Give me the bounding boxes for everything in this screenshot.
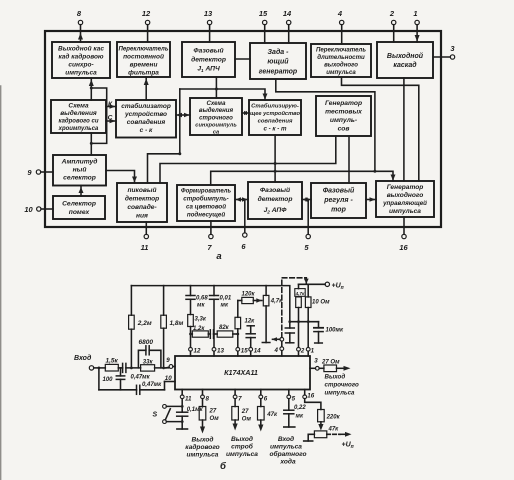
svg-text:кадрового си: кадрового си xyxy=(58,119,98,125)
svg-text:Вход: Вход xyxy=(74,354,92,362)
IC pin 2 node xyxy=(297,347,305,356)
svg-text:хода: хода xyxy=(279,458,296,466)
svg-text:синхроимпуль: синхроимпуль xyxy=(195,123,237,129)
svg-text:S: S xyxy=(153,412,158,419)
capacitor C1 0.47uF series xyxy=(123,363,151,380)
svg-text:1,8м: 1,8м xyxy=(170,320,184,327)
svg-text:Генератор: Генератор xyxy=(325,100,362,107)
resistor R12 33k xyxy=(141,360,169,372)
svg-text:тестовых: тестовых xyxy=(325,109,362,116)
block U1 Выходной каскад кадрового синхроимпульса xyxy=(52,42,110,78)
svg-text:100: 100 xyxy=(103,377,114,383)
wire U9-U10 link with arrows xyxy=(242,111,249,115)
ground rail bottom xyxy=(99,389,137,391)
svg-text:12к: 12к xyxy=(245,319,256,325)
svg-text:импульса: импульса xyxy=(325,390,356,397)
capacitor C3 0.68uF and resistor R3 3.3k chain to pin 12 xyxy=(186,286,195,348)
svg-text:выходного: выходного xyxy=(324,62,358,69)
wire U17-U18 link with right arrow xyxy=(366,197,376,202)
svg-text:детектор: детектор xyxy=(258,195,293,203)
svg-text:1: 1 xyxy=(311,347,315,354)
block U6 Выходной каскад xyxy=(377,42,433,78)
svg-text:строчного: строчного xyxy=(199,114,233,121)
svg-text:Генератор: Генератор xyxy=(387,184,424,191)
svg-text:13: 13 xyxy=(204,9,213,18)
svg-text:совпадения: совпадения xyxy=(127,118,166,126)
wire U7 bottom to U12 top xyxy=(90,133,92,155)
wire input down leg xyxy=(98,368,100,390)
wire junction net to U14 top xyxy=(148,154,180,183)
resistor R4 1.2k chain xyxy=(191,326,211,337)
wire U1-U7 with up arrow xyxy=(89,78,94,100)
block U15 Формирователь строб-импульса цветовой поднесущей xyxy=(177,185,235,221)
input terminal xyxy=(74,354,94,370)
svg-text:3: 3 xyxy=(314,357,318,364)
block U11 Генератор тестовых импульсов xyxy=(316,96,371,136)
svg-text:с - к - т: с - к - т xyxy=(263,126,287,133)
wire U10 bottom to U16 top xyxy=(274,135,276,182)
block U9 Схема выделения строчного синхроимпульса xyxy=(190,98,242,135)
potentiometer R8 4.7k xyxy=(262,286,283,343)
resistor R5 82k chain xyxy=(214,325,238,337)
svg-text:33к: 33к xyxy=(143,360,154,366)
resistor R6 12k on pin15 line xyxy=(235,301,255,348)
wire pin8 to U1 with up arrow xyxy=(78,31,83,42)
svg-text:11: 11 xyxy=(185,395,192,402)
wire pin4 to U5 xyxy=(341,31,343,44)
svg-text:импульса: импульса xyxy=(226,451,258,458)
svg-text:Формирователь: Формирователь xyxy=(181,189,232,195)
svg-text:выделения: выделения xyxy=(199,107,234,114)
svg-text:генератор: генератор xyxy=(259,69,298,76)
svg-text:3: 3 xyxy=(450,44,455,53)
IC pin 10 node xyxy=(165,375,176,382)
svg-text:3,3к: 3,3к xyxy=(195,317,207,323)
IC pin 4 node xyxy=(274,347,284,356)
svg-text:J1 АПЧ: J1 АПЧ xyxy=(197,66,220,73)
wire vertical x180 xyxy=(179,89,181,154)
wire pin13 to U3 xyxy=(209,31,211,42)
svg-text:0,47мк: 0,47мк xyxy=(142,382,162,388)
svg-text:J2 АПФ: J2 АПФ xyxy=(264,207,288,214)
block U14 Пиковый детектор совпадения xyxy=(117,183,167,222)
junction at 275,171 xyxy=(274,170,277,173)
svg-text:Вход: Вход xyxy=(278,435,294,443)
wire U13 to U12 with up arrow xyxy=(79,186,84,197)
svg-text:5: 5 xyxy=(304,243,309,252)
junction at 180,154 xyxy=(178,152,181,155)
wire U16-U17 link with arrows xyxy=(302,197,311,201)
svg-text:помех: помех xyxy=(69,209,90,216)
svg-text:+Uп: +Uп xyxy=(332,283,344,292)
IC pin 13 node xyxy=(212,347,224,356)
capacitor C2 100 to rail xyxy=(103,368,125,390)
IC pin 11 node xyxy=(180,390,192,403)
pin 1 terminal xyxy=(413,9,419,31)
svg-text:каскад: каскад xyxy=(393,61,417,69)
svg-text:82к: 82к xyxy=(219,325,230,331)
svg-text:Схема: Схема xyxy=(68,103,89,110)
wire pin14 to U4 xyxy=(288,31,290,43)
svg-text:14: 14 xyxy=(254,347,261,354)
label output line pulse xyxy=(325,374,359,397)
svg-text:постоянной: постоянной xyxy=(123,53,164,61)
svg-text:са цветовой: са цветовой xyxy=(186,204,226,211)
svg-text:импуль-: импуль- xyxy=(330,117,358,124)
svg-text:стробимпуль-: стробимпуль- xyxy=(183,196,229,203)
svg-text:47к: 47к xyxy=(266,412,278,418)
svg-text:импульса: импульса xyxy=(187,452,219,459)
wire pin2 to U6 xyxy=(393,31,395,42)
resistor R11 1.5k xyxy=(105,357,122,371)
svg-text:тор: тор xyxy=(331,207,346,214)
svg-text:Фазовый: Фазовый xyxy=(323,187,355,195)
wire pin15 to U4 xyxy=(264,31,266,43)
block U16 Фазовый детектор 2 АПФ xyxy=(248,182,302,219)
svg-text:Ом: Ом xyxy=(242,417,252,423)
pin 11 terminal xyxy=(141,222,149,252)
svg-text:времени: времени xyxy=(130,62,158,69)
IC pin 9 node xyxy=(166,357,175,368)
svg-text:ный: ный xyxy=(73,166,87,174)
svg-text:1,2к: 1,2к xyxy=(193,326,205,332)
svg-text:Фазовый: Фазовый xyxy=(260,186,290,194)
svg-text:Амплитуд: Амплитуд xyxy=(61,158,98,166)
svg-text:обратного: обратного xyxy=(269,450,306,458)
svg-text:Выход: Выход xyxy=(231,435,253,443)
svg-text:220к: 220к xyxy=(326,415,341,421)
resistor R15 47k pin 6 input xyxy=(258,399,278,432)
+Un segment and terminal xyxy=(299,282,344,291)
scan page edge left xyxy=(0,86,2,480)
svg-text:детектор: детектор xyxy=(191,56,226,64)
IC pin 5 node xyxy=(287,390,296,403)
svg-text:5: 5 xyxy=(292,395,296,402)
potentiometer R17 47k xyxy=(304,427,339,442)
svg-text:кад кадровою: кад кадровою xyxy=(58,53,103,61)
wire C link U7-U8 xyxy=(106,119,116,124)
svg-text:Зада -: Зада - xyxy=(268,48,290,56)
junction pin1 line xyxy=(307,320,310,323)
svg-text:совпаде-: совпаде- xyxy=(127,203,156,211)
pin 9 terminal xyxy=(27,168,53,177)
svg-text:Селектор: Селектор xyxy=(62,201,96,208)
svg-text:0,47мк: 0,47мк xyxy=(131,375,151,381)
svg-text:управляющей: управляющей xyxy=(382,200,427,207)
wire pin9 link xyxy=(166,366,169,369)
wire U5 bottom to U18 top xyxy=(342,77,419,181)
switch contact at pin 4 xyxy=(272,337,284,346)
capacitor C4 0.01uF to pin 13 xyxy=(210,286,219,348)
label input flyback pulse xyxy=(269,435,306,466)
junction S top xyxy=(181,405,184,408)
svg-text:щее устройство: щее устройство xyxy=(250,110,300,117)
svg-text:10 Ом: 10 Ом xyxy=(312,300,330,306)
svg-text:2: 2 xyxy=(300,347,305,354)
capacitor C12 0.22uF pin 5 xyxy=(284,399,307,427)
svg-text:8: 8 xyxy=(77,9,82,18)
dashed wiper to +Un xyxy=(327,432,354,450)
wire U12 out to U14 top with down arrow xyxy=(106,171,137,184)
svg-text:мк: мк xyxy=(197,303,205,309)
pin 5 terminal xyxy=(304,200,310,253)
svg-text:кадрового: кадрового xyxy=(185,443,219,451)
block U12 Амплитудный селектор xyxy=(53,155,106,186)
svg-text:4,7к: 4,7к xyxy=(295,291,305,296)
capacitor C6 at pin 14 xyxy=(246,326,255,348)
pin 13 terminal xyxy=(204,9,213,31)
svg-text:0,68: 0,68 xyxy=(196,296,208,302)
arrow onto +Un rail xyxy=(304,278,309,284)
junction S bottom xyxy=(181,420,184,423)
svg-text:выходного: выходного xyxy=(387,191,424,199)
svg-text:Фазовый: Фазовый xyxy=(193,47,223,55)
svg-text:Выходной кас: Выходной кас xyxy=(58,45,104,53)
svg-text:импульса: импульса xyxy=(326,69,356,76)
wire horizontal y89 to U10 top with down arrow xyxy=(180,89,268,100)
block U18 Генератор выходного управляющего импульса xyxy=(376,181,434,217)
IC pin 6 node xyxy=(259,390,268,403)
outer box of block diagram xyxy=(45,31,441,227)
capacitor C7 on rail turn xyxy=(285,322,294,343)
pin 2 terminal xyxy=(389,9,396,31)
IC pin 15 node xyxy=(236,347,248,356)
dashed link pin4 to +Un xyxy=(282,278,307,338)
IC pin 1 node xyxy=(306,347,314,356)
framed value 4.7k xyxy=(295,284,306,296)
svg-text:120к: 120к xyxy=(242,292,256,298)
junction at 216,89 xyxy=(215,88,218,91)
wire U3 down to U9 top xyxy=(215,77,217,98)
junction at 91,88 xyxy=(90,87,93,90)
block U8 Стабилизатор устройство совпадения С-К xyxy=(116,100,176,138)
IC pin 8 node xyxy=(201,390,210,403)
pin 3 terminal xyxy=(433,44,455,59)
wire K link U7-U8 xyxy=(106,104,116,109)
capacitor C10 0.47uF series in rail xyxy=(137,382,165,394)
label output strobe pulse xyxy=(226,435,258,458)
svg-text:мк: мк xyxy=(296,414,304,420)
junction chain-pin15 xyxy=(236,333,239,336)
svg-text:хроимпульса: хроимпульса xyxy=(58,126,99,132)
svg-text:импульса: импульса xyxy=(65,70,97,77)
wire U11 bottom left to U14 top xyxy=(160,136,336,183)
pin 8 terminal xyxy=(77,9,83,31)
svg-text:0,22: 0,22 xyxy=(294,405,306,411)
switch S xyxy=(153,405,183,424)
wire pin12 to U2 xyxy=(147,31,149,42)
junction at 375,171 xyxy=(373,170,376,173)
junction at 180,115 xyxy=(178,114,181,117)
svg-text:+Uп: +Uп xyxy=(342,442,354,451)
svg-text:47к: 47к xyxy=(328,427,340,433)
wire pin1 to U6 with down arrow xyxy=(415,31,420,42)
svg-text:2,2м: 2,2м xyxy=(137,320,152,327)
svg-text:27: 27 xyxy=(209,409,217,415)
svg-text:16: 16 xyxy=(307,392,314,399)
svg-text:14: 14 xyxy=(283,9,292,18)
junction node 1.8M xyxy=(162,367,165,370)
svg-text:стабилизатор: стабилизатор xyxy=(121,102,171,110)
wire U3-U4 link xyxy=(235,58,250,60)
svg-text:Выход: Выход xyxy=(192,436,214,444)
svg-text:мк: мк xyxy=(221,303,229,309)
svg-text:ния: ния xyxy=(136,213,148,220)
svg-text:9: 9 xyxy=(27,168,32,177)
svg-text:пиковый: пиковый xyxy=(127,186,156,194)
svg-text:12: 12 xyxy=(142,9,151,18)
svg-text:импульса: импульса xyxy=(270,444,302,451)
svg-text:4: 4 xyxy=(337,9,343,18)
block U4 Задающий генератор xyxy=(250,43,306,79)
IC pin 12 node xyxy=(189,347,201,356)
pin 10 terminal xyxy=(24,205,53,214)
wire pin 11 down xyxy=(181,399,183,413)
IC pin 7 node xyxy=(233,390,242,403)
svg-text:0,01: 0,01 xyxy=(220,296,232,302)
wire bypass around U7 right xyxy=(91,88,106,143)
svg-text:Ом: Ом xyxy=(210,416,220,422)
svg-text:поднесущей: поднесущей xyxy=(187,212,226,219)
wire pin16 to 220k xyxy=(305,399,321,410)
svg-text:Переключатель: Переключатель xyxy=(316,47,366,54)
svg-text:фильтра: фильтра xyxy=(128,70,159,77)
junction chain-pin13 xyxy=(189,333,192,336)
pin 16 terminal xyxy=(399,217,408,252)
junction pin2 line xyxy=(297,320,300,323)
IC DA1 K174XA11 xyxy=(175,356,310,390)
junction node 2.2M xyxy=(130,367,133,370)
svg-text:1,5к: 1,5к xyxy=(106,357,119,364)
junction rail turn xyxy=(288,320,291,323)
wire U15-U16 link with arrows xyxy=(235,197,248,201)
supply rail top xyxy=(131,286,289,322)
wire U8 to U2 with up arrow xyxy=(144,77,149,100)
svg-text:с - к: с - к xyxy=(140,127,153,134)
rail to caps horizontal xyxy=(290,321,319,323)
wire U6 bottom to U18 top xyxy=(403,78,405,181)
svg-text:7: 7 xyxy=(207,243,212,252)
block U3 Фазовый детектор 1 АПЧ xyxy=(182,42,235,77)
capacitor C9 6800 parallel loop xyxy=(138,339,161,368)
svg-text:100мк: 100мк xyxy=(326,328,344,334)
svg-text:совпадения: совпадения xyxy=(258,119,293,125)
svg-text:детектор: детектор xyxy=(125,195,159,203)
block U2 Переключатель постоянной времени фильтра xyxy=(117,42,170,77)
svg-text:са: са xyxy=(213,129,219,135)
svg-text:8: 8 xyxy=(206,395,210,402)
resistor R16 220k xyxy=(318,410,341,431)
svg-text:строб: строб xyxy=(231,443,254,451)
svg-text:13: 13 xyxy=(217,347,224,354)
svg-text:строчного: строчного xyxy=(325,382,359,389)
svg-text:10: 10 xyxy=(165,375,172,382)
svg-text:Стабилизирую-: Стабилизирую- xyxy=(251,103,299,110)
block U5 Переключатель длительности выходного импульса xyxy=(311,44,371,77)
svg-text:10: 10 xyxy=(24,205,33,214)
svg-text:4: 4 xyxy=(274,347,279,354)
svg-text:выделения: выделения xyxy=(60,109,97,117)
resistor R18 27 Ohm pin 3 output xyxy=(319,359,350,371)
wire rail to pin 10 xyxy=(164,382,166,390)
wire U11 bottom to U17 top xyxy=(348,136,350,183)
capacitor C8 100uF electrolytic xyxy=(314,322,344,343)
label output frame pulse xyxy=(185,436,219,459)
resistor R14 27 Ohm pin 7 output xyxy=(232,399,252,431)
svg-text:11: 11 xyxy=(141,243,149,252)
resistor R13 27 Ohm pin 8 output xyxy=(199,399,219,434)
svg-text:а: а xyxy=(216,251,221,262)
resistor R7 120k with arrow to pot xyxy=(238,292,262,304)
svg-text:16: 16 xyxy=(399,243,408,252)
pin 4 terminal xyxy=(337,9,344,31)
pin 12 terminal xyxy=(142,9,151,31)
pin 15 terminal xyxy=(259,9,268,31)
block U10 Стабилизирующее устройство совпадения С-К-Т xyxy=(249,100,301,135)
svg-text:ющий: ющий xyxy=(267,58,289,66)
capacitor C5 series in chain xyxy=(210,330,213,339)
svg-text:устройство: устройство xyxy=(124,110,167,118)
resistor R1 2.2M xyxy=(129,286,152,368)
svg-text:9: 9 xyxy=(166,357,170,364)
resistor R10 10 Ohm to pin 1 xyxy=(305,284,330,347)
junction at 91,143 xyxy=(90,142,93,145)
svg-text:синхро-: синхро- xyxy=(68,62,93,69)
resistor R9 4.7k to pin 2 xyxy=(296,297,302,347)
svg-text:Выходной: Выходной xyxy=(387,52,424,60)
svg-text:Выход: Выход xyxy=(325,374,346,381)
svg-text:Схема: Схема xyxy=(207,100,227,107)
capacitor C11 0.1uF xyxy=(177,407,204,429)
svg-text:7: 7 xyxy=(238,395,242,402)
wire input line xyxy=(94,367,106,369)
block U13 Селектор помех xyxy=(53,196,105,219)
svg-text:Переключатель: Переключатель xyxy=(119,46,169,53)
svg-text:27 Ом: 27 Ом xyxy=(321,359,340,365)
svg-text:К174ХА11: К174ХА11 xyxy=(224,368,258,377)
IC pin 16 node xyxy=(303,390,315,400)
wire U4 bottom to U18 top with down arrow xyxy=(276,79,396,181)
IC pin 3 node xyxy=(310,357,319,370)
svg-text:6: 6 xyxy=(241,242,246,251)
svg-text:0,1мк: 0,1мк xyxy=(187,407,204,413)
svg-text:импульса: импульса xyxy=(389,208,421,215)
svg-text:6: 6 xyxy=(264,395,268,402)
wire long horizontal y171 to U15 top xyxy=(211,171,375,185)
junction input xyxy=(98,367,101,370)
svg-text:б: б xyxy=(220,461,227,472)
svg-text:сов: сов xyxy=(338,126,350,133)
svg-text:2: 2 xyxy=(389,9,395,18)
svg-text:27: 27 xyxy=(241,409,249,415)
svg-text:регуля -: регуля - xyxy=(323,197,353,204)
svg-text:6800: 6800 xyxy=(139,339,154,346)
svg-text:длительности: длительности xyxy=(317,54,365,61)
IC pin 14 node xyxy=(249,347,261,356)
pin 7 terminal xyxy=(207,221,213,252)
svg-text:12: 12 xyxy=(194,347,201,354)
svg-text:С: С xyxy=(108,115,113,122)
svg-text:1: 1 xyxy=(413,9,417,18)
resistor R2 1.8M xyxy=(161,286,184,368)
block U7 Схема выделения кадрового синхроимпульса xyxy=(51,100,106,133)
block U17 Фазовый регулятор xyxy=(311,183,366,218)
svg-text:15: 15 xyxy=(259,9,268,18)
wire U8-U9 link with arrows both ways xyxy=(176,113,190,117)
junction at 275,163 xyxy=(274,162,277,165)
pin 6 terminal xyxy=(241,200,247,252)
svg-text:селектор: селектор xyxy=(63,175,96,182)
